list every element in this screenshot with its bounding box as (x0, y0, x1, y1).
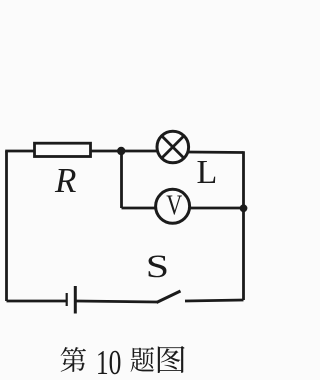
node: junction dot left (lamp/voltmeter split) (117, 147, 125, 155)
switch S lever (open) (157, 291, 181, 303)
caption character 题 (131, 347, 155, 372)
wire: battery to switch left contact (77, 301, 158, 302)
wire: voltmeter right to node on right side (191, 207, 244, 210)
wire: left vertical side (5, 151, 8, 301)
svg-text:S: S (146, 248, 169, 285)
caption character 图 (158, 346, 185, 373)
wire: resistor to lamp (91, 150, 159, 153)
voltmeter V (circle with letter V) (156, 189, 190, 223)
svg-text:10: 10 (96, 344, 122, 380)
lamp L (circle with cross) (157, 131, 189, 163)
svg-text:R: R (54, 161, 76, 200)
caption character 第 (61, 347, 86, 372)
wire: bottom-left corner to battery (7, 300, 67, 303)
svg-text:L: L (197, 154, 218, 191)
resistor R body (35, 143, 91, 156)
wire: lamp right to top-right corner (187, 151, 244, 154)
wire: top-left corner to resistor (5, 150, 34, 153)
node: junction dot right (voltmeter rejoin) (240, 204, 248, 212)
wire: voltmeter branch horizontal to voltmeter (122, 207, 156, 210)
wire: voltmeter branch vertical drop (120, 151, 123, 208)
svg-text:V: V (166, 190, 182, 222)
wire: switch right contact to bottom-right corner (185, 300, 244, 301)
battery negative terminal (short plate) (66, 293, 68, 306)
battery positive terminal (long plate) (74, 286, 77, 314)
wire: right vertical side (242, 151, 245, 300)
